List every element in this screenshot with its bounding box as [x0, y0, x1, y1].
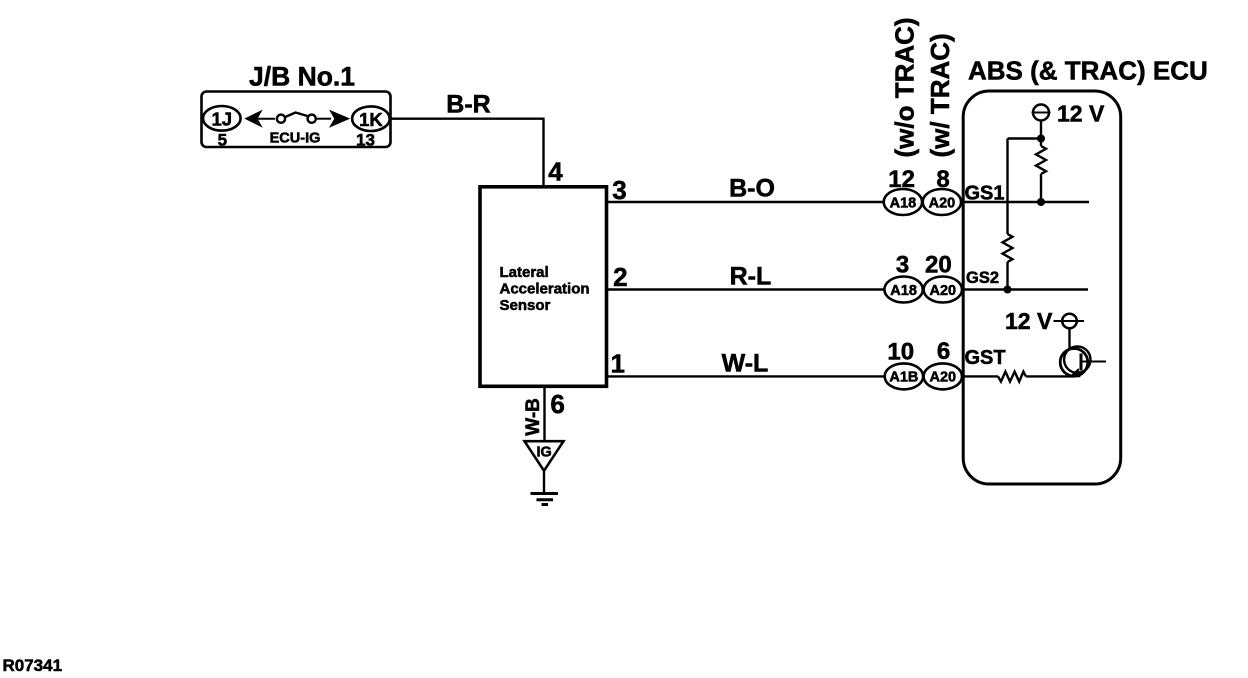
svg-text:R07341: R07341 [3, 656, 63, 675]
svg-text:IG: IG [537, 445, 552, 461]
junction dot on GS2 [1004, 286, 1012, 294]
connector oval 1K [352, 106, 390, 131]
resistor R2 (to GS2) [1003, 234, 1013, 262]
12V terminal top [1033, 105, 1049, 121]
svg-text:ECU-IG: ECU-IG [270, 131, 321, 147]
svg-text:A20: A20 [929, 283, 956, 299]
connector oval A18 row1 [884, 189, 922, 215]
junction block J/B No.1 outline [202, 92, 391, 148]
svg-text:A18: A18 [890, 195, 917, 211]
switch ECU-IG contact left [277, 115, 285, 123]
wire W-L pin1 to A1B [608, 375, 885, 377]
ECU outline [963, 91, 1120, 484]
wire from 12V down [1040, 121, 1042, 147]
branch wire to left [1008, 137, 1042, 139]
svg-text:J/B No.1: J/B No.1 [249, 62, 355, 92]
ground [531, 492, 559, 495]
svg-text:A18: A18 [890, 283, 917, 299]
connector oval A1B row3 [885, 363, 923, 389]
svg-text:5: 5 [218, 131, 227, 150]
wire to transistor base [1026, 375, 1074, 377]
svg-text:Sensor: Sensor [500, 297, 551, 314]
svg-text:(w/ TRAC): (w/ TRAC) [925, 33, 955, 157]
svg-text:3: 3 [612, 175, 626, 205]
svg-text:W-B: W-B [523, 398, 544, 436]
svg-text:2: 2 [613, 262, 627, 292]
junction dot [1037, 135, 1045, 143]
svg-text:10: 10 [887, 339, 914, 366]
svg-text:4: 4 [548, 157, 563, 187]
svg-text:ABS (& TRAC) ECU: ABS (& TRAC) ECU [968, 56, 1208, 86]
wire resistor to GS2 [1006, 262, 1008, 290]
transistor emitter arrow [1069, 368, 1081, 377]
wire R-L pin2 to A18 [608, 288, 885, 290]
svg-text:Acceleration: Acceleration [500, 281, 590, 298]
svg-text:W-L: W-L [722, 350, 769, 378]
svg-text:1K: 1K [359, 109, 383, 130]
switch ECU-IG blade [285, 113, 307, 118]
wire [317, 118, 332, 120]
switch ECU-IG contact right [308, 115, 316, 123]
junction dot on GS1 [1037, 198, 1045, 206]
svg-text:6: 6 [937, 338, 950, 365]
connector oval A20 row1 [923, 189, 961, 215]
wire [543, 471, 545, 493]
connector oval 1J [203, 106, 241, 131]
svg-text:3: 3 [896, 252, 909, 279]
wire B-R from 1K to sensor pin 4 [392, 119, 544, 186]
wire 12V to transistor collector [1068, 329, 1070, 350]
wire B-O pin3 to A18 [608, 201, 885, 203]
transistor Q1 [1060, 349, 1088, 377]
svg-text:R-L: R-L [730, 263, 772, 291]
svg-text:12 V: 12 V [1057, 101, 1105, 127]
Lateral Acceleration Sensor box [480, 187, 607, 386]
connector oval A20 row2 [924, 277, 962, 303]
left arrow into 1J [244, 110, 262, 128]
wire [247, 118, 275, 120]
svg-text:GS2: GS2 [966, 269, 999, 287]
svg-text:A20: A20 [929, 370, 956, 386]
wire resistor to GS1 [1040, 174, 1042, 203]
svg-text:GST: GST [965, 347, 1006, 369]
resistor R1 (pull-up to GS1) [1036, 146, 1046, 174]
svg-text:1: 1 [610, 349, 624, 379]
svg-text:A1B: A1B [889, 370, 918, 386]
connector oval A18 row2 [884, 277, 922, 303]
svg-text:20: 20 [925, 252, 952, 279]
wire GS1 inside ECU [962, 201, 1089, 203]
svg-text:(w/o TRAC): (w/o TRAC) [890, 17, 920, 157]
wire GS2 inside ECU [962, 288, 1088, 290]
wire down left branch [1006, 139, 1008, 235]
wire W-B sensor pin6 to ground [543, 387, 545, 442]
svg-text:A20: A20 [929, 195, 956, 211]
ground triangle IG [525, 441, 564, 471]
svg-text:12 V: 12 V [1005, 308, 1053, 334]
svg-text:6: 6 [550, 389, 564, 419]
svg-text:Lateral: Lateral [500, 264, 549, 281]
wire GST with resistor R3 [962, 375, 998, 377]
svg-text:B-R: B-R [446, 91, 490, 119]
connector oval A20 row3 [924, 363, 962, 389]
svg-text:1J: 1J [212, 109, 233, 130]
svg-text:13: 13 [356, 131, 375, 150]
resistor R3 (GST series) [998, 372, 1026, 382]
right arrow into 1K [329, 110, 350, 128]
svg-text:B-O: B-O [729, 175, 775, 203]
